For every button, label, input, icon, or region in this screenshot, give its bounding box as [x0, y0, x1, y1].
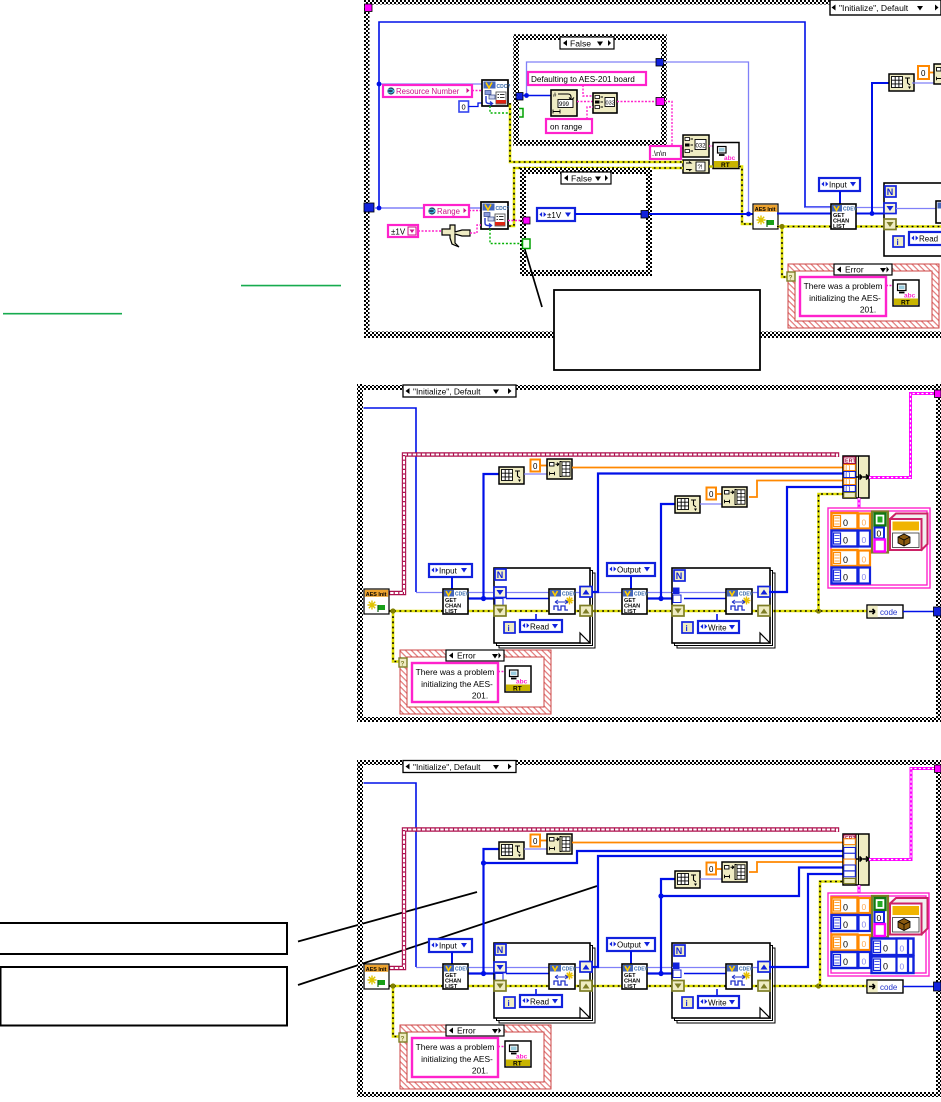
VISA open VI 1 [482, 80, 510, 106]
svg-text:0: 0 [862, 535, 867, 545]
\n\n string label [650, 146, 681, 159]
wire olive error up to bundle (panel2) [819, 494, 844, 611]
wire olive RT down to AES Init [739, 167, 753, 225]
wire blue tunnel to VISA open 2 [374, 207, 481, 209]
blue tunnel case1 right [656, 59, 664, 67]
GET CHAN LIST VI top panel [831, 204, 858, 230]
wire lavender index to build top [912, 82, 934, 84]
svg-text:0: 0 [843, 903, 848, 913]
svg-text:CDC?: CDC? [497, 84, 511, 90]
RT VI top panel [713, 143, 739, 169]
wire blue forloop2 out up to bundle (panel3) [769, 874, 843, 967]
svg-text:0: 0 [862, 518, 867, 528]
svg-text:Input: Input [829, 181, 848, 190]
svg-text:False: False [571, 173, 592, 183]
callout leader diagonal line A [298, 892, 477, 942]
svg-text:0: 0 [883, 962, 888, 972]
wire blue forloop2 out up to bundle (panel2) [769, 487, 843, 592]
svg-text:0: 0 [900, 944, 905, 954]
wire blue forloop1 out up to bundle (panel3) [592, 856, 843, 967]
error merge icon [683, 160, 709, 173]
green tunnel case 1 [516, 109, 524, 118]
case selector panel 2 [403, 385, 516, 397]
wire olive error up to bundle (panel3) [820, 882, 843, 987]
wire lavender resource to VISA open 1 [379, 83, 482, 85]
wire blue channel list branch A to bundle (panel3) [481, 851, 843, 866]
green tunnel case 2 [523, 239, 531, 249]
wire magenta dashed bundle to cluster (panel2) [858, 498, 861, 509]
wire blue AES to GET CHAN [777, 213, 884, 215]
wire magenta dashed bundle to border tunnel (panel2) [869, 394, 935, 478]
Defaulting label [528, 72, 646, 85]
svg-text:0: 0 [843, 957, 848, 967]
wire olive VISA1 error down and right [510, 103, 683, 162]
while loop border bottom (panel 1) [364, 332, 941, 339]
wire blue forloop1 out up to bundle (panel2) [592, 474, 843, 593]
svg-text:0: 0 [843, 920, 848, 930]
bundle by name node (panel2) [843, 456, 869, 498]
wire blue resource bus top [379, 22, 831, 208]
wire orange build2 to bundle (panel2) [749, 481, 843, 498]
svg-text:0: 0 [921, 69, 926, 78]
wire green boolean VISA2 to case2 [490, 229, 523, 244]
build array icon top panel (cut) [934, 64, 941, 84]
hyperlink underline green line 2 [3, 313, 122, 315]
wire pink dashed case1 out down to concat row [665, 102, 684, 149]
svg-text:on range: on range [550, 123, 583, 132]
AES Init VI top panel [753, 204, 778, 229]
svg-text:0: 0 [862, 902, 867, 912]
svg-text:0: 0 [900, 962, 905, 972]
wire pink dashed pm1V to funnel [418, 230, 441, 232]
wire olive AES error out [777, 224, 884, 277]
orange constant 0 top panel [918, 66, 929, 79]
wire lavender behind GET CHAN to loop tunnel [805, 207, 884, 209]
svg-text:0: 0 [843, 940, 848, 950]
on range label [546, 119, 592, 133]
svg-text:0: 0 [862, 572, 867, 582]
wire pink dashed defaulting label to concat [583, 85, 593, 96]
wire olive error merge to RT [709, 165, 713, 167]
svg-text:0: 0 [862, 555, 867, 565]
border tunnel blue left [364, 203, 374, 212]
callout leader diagonal top panel [525, 250, 542, 307]
svg-text:"Initialize", Default: "Initialize", Default [413, 387, 481, 397]
svg-text:0: 0 [462, 103, 466, 112]
svg-text:0: 0 [843, 518, 848, 528]
case selector 1 False [560, 37, 614, 49]
svg-text:0: 0 [877, 913, 882, 923]
wire pink dashed concat to case1 right tunnel [617, 101, 656, 103]
svg-text:"Initialize", Default: "Initialize", Default [413, 762, 481, 772]
while loop border top (panel 1) [364, 0, 941, 5]
callout leader diagonal line B [298, 886, 597, 985]
wire pink dashed Resource Number to VISA open 1 [472, 90, 482, 92]
svg-text:ERT: ERT [845, 459, 856, 465]
index array icon top panel [889, 74, 914, 91]
case structure 1 border [513, 34, 667, 146]
svg-text:0: 0 [843, 555, 848, 565]
svg-text:Read: Read [919, 235, 938, 244]
numeric constant 0 [459, 101, 469, 112]
wire pink dashed VISA2 to case2 tunnel [508, 220, 523, 222]
panel 2 shared content [364, 408, 941, 714]
pm1V enum inside case2 [537, 208, 575, 221]
junction node at 379,84 [377, 82, 382, 87]
while loop border left (panel 1) [364, 0, 370, 337]
wire magenta dashed bundle to border tunnel (panel3) [869, 769, 935, 860]
wire green boolean VISA1 to case 1 [490, 106, 516, 113]
svg-text:.\n\n: .\n\n [652, 149, 666, 158]
svg-text:±1V: ±1V [547, 211, 562, 220]
magenta tunnel case2 left [523, 217, 530, 224]
magenta tunnel case1 right [656, 98, 665, 106]
junction node at 379,208 [377, 206, 382, 211]
svg-text:?!: ?! [698, 165, 703, 171]
case selector label panel 1 [830, 0, 941, 15]
svg-text:Defaulting to AES-201 board: Defaulting to AES-201 board [531, 75, 635, 84]
svg-text:0: 0 [862, 957, 867, 967]
border tunnel magenta (panel2) [935, 390, 941, 398]
hyperlink underline green line 1 [241, 285, 341, 287]
pm1V ring constant [388, 225, 418, 237]
panel 3 shared content [364, 783, 941, 1089]
VISA open VI 2 [481, 202, 509, 229]
Input enum top panel [819, 178, 860, 191]
wire blue pm1V enum to AES Init [575, 213, 753, 215]
wire orange 0 to build array top [929, 72, 934, 74]
svg-text:[ ]: [ ] [846, 466, 851, 472]
svg-text:[ ]: [ ] [846, 487, 851, 493]
wire magenta dashed bundle to cluster (panel3) [858, 885, 861, 893]
svg-text:±1V: ±1V [391, 227, 406, 236]
blue tunnel case2 right [641, 211, 649, 219]
svg-text:[ ]: [ ] [846, 473, 851, 479]
wire blue 0 to VISA open 1 [469, 103, 483, 107]
cluster constant (panel3) [828, 893, 929, 976]
callout rectangle box 2 (bottom left) [1, 967, 288, 1026]
wire lavender case1 out to down bus [664, 62, 749, 214]
wire orange build2 to bundle (panel3) [749, 862, 843, 872]
wire pink dashed format to concat [577, 101, 593, 103]
wire blue inside case1 to format icon [523, 95, 551, 97]
junction and wire to index array top [870, 83, 889, 216]
for loop top panel [884, 183, 941, 256]
svg-text:999: 999 [559, 102, 570, 108]
callout rectangle box top panel [554, 290, 760, 370]
concatenate strings icon [593, 93, 617, 113]
wire pink dashed on range to concat [587, 107, 593, 119]
bundle by name node (panel3) [843, 834, 869, 885]
svg-text:Range: Range [437, 207, 460, 216]
svg-text:"Initialize", Default: "Initialize", Default [839, 3, 909, 13]
case selector panel 3 [403, 761, 516, 773]
shift register tunnel magenta top-left [365, 4, 373, 12]
string concat 032 icon [683, 135, 709, 157]
Resource Number label [383, 85, 472, 97]
svg-text:0: 0 [877, 529, 882, 539]
svg-text:032: 032 [606, 101, 615, 107]
case selector 2 False [561, 172, 611, 184]
svg-text:0: 0 [843, 573, 848, 583]
wire pink dashed Range to VISA open 2 [469, 210, 481, 212]
svg-text:[ ]: [ ] [846, 480, 851, 486]
junction node case1 [524, 93, 529, 98]
wire pink dashed funnel to VISA2 [470, 225, 481, 233]
wire blue Input enum to GET CHAN [839, 191, 841, 204]
svg-text:CDC?: CDC? [496, 206, 510, 212]
wire lavender case1 vertical to top [527, 62, 657, 96]
blue tunnel case1 left [516, 93, 523, 101]
Range label [424, 205, 469, 217]
svg-text:032: 032 [696, 144, 707, 150]
callout rectangle box 1 (bottom left) [0, 923, 287, 954]
while loop border panel 3 [357, 760, 941, 1097]
border tunnel magenta (panel3) [935, 765, 941, 773]
Read enum top panel [909, 232, 941, 245]
error case structure top panel [787, 264, 939, 328]
cluster constant (panel2) [828, 508, 930, 588]
svg-text:0: 0 [883, 944, 888, 954]
svg-text:False: False [570, 38, 591, 48]
svg-text:0: 0 [843, 536, 848, 546]
wire blue channel list branch C to bundle (panel3) [658, 868, 843, 899]
svg-text:0: 0 [862, 939, 867, 949]
svg-text:0: 0 [862, 920, 867, 930]
coerce funnel icon [442, 225, 470, 247]
wire pink dashed 032 to RT [709, 145, 713, 147]
wire olive VISA2 error up and right [509, 168, 683, 226]
while loop border panel 2 [357, 384, 941, 722]
format into string icon [551, 90, 577, 116]
svg-text:Resource Number: Resource Number [396, 87, 460, 96]
case structure 2 border [523, 171, 649, 273]
inner VI partial top panel [936, 201, 941, 223]
junction node 748 [746, 212, 751, 217]
